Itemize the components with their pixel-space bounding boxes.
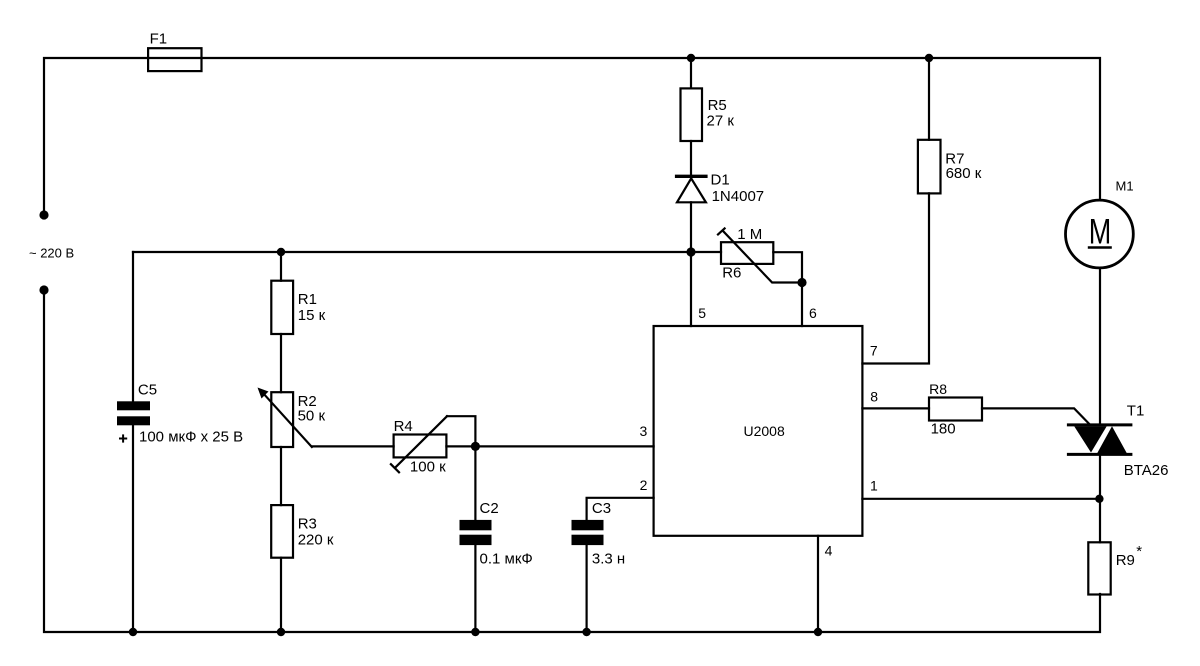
svg-text:F1: F1	[150, 31, 168, 48]
svg-text:3: 3	[640, 423, 648, 439]
svg-text:T1: T1	[1127, 403, 1145, 420]
svg-text:5: 5	[698, 305, 706, 321]
svg-text:680 к: 680 к	[946, 165, 982, 182]
svg-text:C3: C3	[592, 500, 611, 517]
svg-text:1: 1	[870, 478, 878, 494]
svg-text:C5: C5	[138, 381, 157, 398]
svg-text:M1: M1	[1116, 179, 1134, 194]
svg-text:*: *	[1136, 543, 1142, 560]
svg-text:R1: R1	[298, 291, 317, 308]
svg-text:220 к: 220 к	[298, 531, 334, 548]
svg-text:3.3 н: 3.3 н	[592, 551, 625, 568]
svg-text:100 мкФ x 25 В: 100 мкФ x 25 В	[139, 429, 243, 446]
svg-text:0.1 мкФ: 0.1 мкФ	[480, 551, 533, 568]
svg-text:50 к: 50 к	[298, 408, 326, 425]
svg-text:180: 180	[931, 420, 956, 437]
svg-text:BTA26: BTA26	[1124, 462, 1169, 479]
svg-text:R4: R4	[394, 418, 413, 435]
svg-text:M: M	[1089, 213, 1112, 252]
svg-text:U2008: U2008	[744, 423, 785, 439]
svg-text:R8: R8	[929, 381, 947, 397]
svg-text:C2: C2	[480, 500, 499, 517]
svg-text:100 к: 100 к	[410, 459, 446, 476]
svg-text:2: 2	[640, 477, 648, 493]
svg-text:R9: R9	[1116, 552, 1135, 569]
svg-text:D1: D1	[711, 172, 730, 189]
svg-text:27 к: 27 к	[707, 112, 735, 129]
svg-text:15 к: 15 к	[298, 307, 326, 324]
svg-text:1N4007: 1N4007	[712, 188, 765, 205]
svg-text:6: 6	[809, 305, 817, 321]
svg-text:~ 220 В: ~ 220 В	[29, 246, 74, 261]
svg-text:1 М: 1 М	[737, 226, 762, 243]
svg-text:R3: R3	[298, 516, 317, 533]
svg-text:R6: R6	[722, 265, 741, 282]
svg-text:7: 7	[870, 343, 878, 359]
svg-text:4: 4	[825, 543, 833, 559]
svg-text:8: 8	[870, 388, 878, 404]
